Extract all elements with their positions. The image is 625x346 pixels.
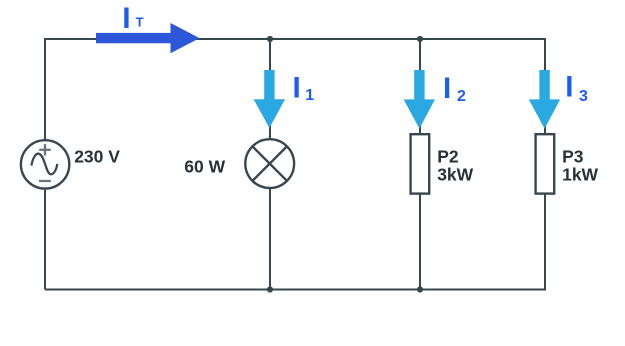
AC voltage source — [21, 140, 69, 188]
current arrow I2 — [404, 70, 435, 129]
node: bottom junction at P2 branch — [417, 286, 423, 292]
wire: bottom bus — [45, 194, 545, 290]
svg-text:I: I — [122, 2, 130, 35]
label P2 3kW — [437, 146, 473, 184]
label I3 — [565, 71, 588, 105]
svg-text:2: 2 — [457, 88, 466, 105]
wire: P2 branch top drop — [419, 39, 421, 134]
svg-text:3: 3 — [579, 88, 588, 105]
current arrow IT — [96, 23, 200, 53]
resistor P3 — [536, 134, 555, 193]
svg-text:1: 1 — [305, 87, 314, 104]
svg-text:T: T — [136, 14, 144, 29]
label I2 — [443, 72, 466, 105]
lamp 60 W — [245, 139, 294, 188]
resistor P2 — [411, 134, 430, 193]
svg-text:60 W: 60 W — [184, 156, 225, 176]
wire: lamp branch top drop — [269, 39, 271, 140]
wire: lamp branch bottom — [269, 187, 271, 290]
value label 60 W — [184, 156, 225, 176]
node: top junction at P2 branch — [417, 36, 423, 42]
svg-text:I: I — [565, 71, 573, 104]
node: top junction at lamp branch — [267, 36, 273, 42]
svg-text:I: I — [443, 72, 451, 105]
svg-text:3kW: 3kW — [437, 165, 473, 185]
wire: top bus from left corner to top-right corner — [45, 39, 545, 139]
label I1 — [293, 71, 315, 104]
svg-text:P2: P2 — [437, 146, 459, 166]
wire: left vertical below source to bottom bus — [44, 190, 46, 290]
value label 230 V — [74, 147, 120, 167]
node: bottom junction at lamp branch — [267, 286, 273, 292]
label P3 1kW — [562, 146, 598, 184]
svg-text:I: I — [293, 71, 301, 104]
svg-text:1kW: 1kW — [562, 165, 598, 185]
svg-text:P3: P3 — [562, 146, 584, 166]
current arrow I1 — [254, 70, 285, 128]
wire: P2 branch bottom — [419, 194, 421, 290]
current arrow I3 — [529, 70, 560, 129]
svg-text:230 V: 230 V — [74, 147, 120, 167]
label IT — [122, 2, 143, 35]
